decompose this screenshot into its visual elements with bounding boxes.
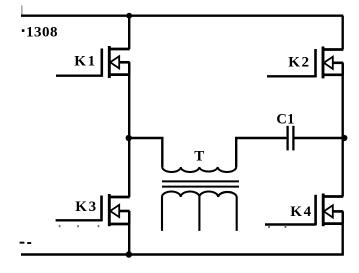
svg-text:C1: C1 — [276, 111, 294, 127]
svg-text:K2: K2 — [288, 55, 310, 71]
svg-text:T: T — [194, 149, 204, 165]
svg-text:K1: K1 — [74, 54, 96, 70]
svg-text:1308: 1308 — [26, 25, 58, 41]
svg-text:K3: K3 — [75, 199, 97, 215]
svg-text:K4: K4 — [290, 204, 312, 220]
